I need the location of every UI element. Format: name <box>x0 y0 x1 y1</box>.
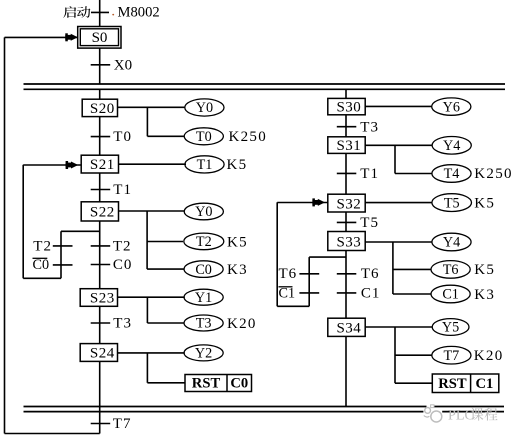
step S33 <box>328 232 365 251</box>
svg-text:C1: C1 <box>442 287 459 303</box>
feedback wire to S32 <box>277 305 309 307</box>
svg-text:T6: T6 <box>443 262 459 278</box>
output coil T4 K250 <box>432 165 471 183</box>
svg-text:T4: T4 <box>444 166 460 182</box>
transition T3 <box>91 322 111 324</box>
svg-text:K5: K5 <box>227 157 248 173</box>
wire S33 outputs <box>365 241 432 243</box>
transition T6 (main) <box>337 273 357 275</box>
output coil Y6 <box>432 98 471 115</box>
action box RST C0 <box>185 375 252 392</box>
svg-text:RST: RST <box>438 376 467 392</box>
wire S32 output <box>365 202 432 204</box>
svg-text:Y0: Y0 <box>195 204 212 220</box>
wire S20 outputs <box>118 106 186 108</box>
svg-text:K250: K250 <box>229 129 268 145</box>
wire S30 to S31 <box>345 115 347 137</box>
wire S32 to S33 <box>345 212 347 232</box>
wire S30 output <box>365 105 432 107</box>
svg-text:PLC: PLC <box>448 408 474 424</box>
output coil Y4 <box>432 137 471 155</box>
transition T7 <box>91 423 111 425</box>
label 启动 <box>63 6 76 18</box>
svg-text:T2: T2 <box>113 238 132 254</box>
svg-text:K5: K5 <box>227 234 248 250</box>
output coil Y0 (S22) <box>184 203 223 220</box>
svg-text:T5: T5 <box>360 215 379 231</box>
svg-text:RST: RST <box>192 376 221 392</box>
step S34 <box>328 318 365 336</box>
output coil C1 K3 <box>431 285 470 303</box>
wire S34 outputs <box>365 326 432 328</box>
svg-text:T1: T1 <box>197 157 213 173</box>
label M8002 <box>112 14 114 16</box>
transition T5 <box>337 221 357 223</box>
output coil T2 K5 <box>184 233 224 250</box>
svg-text:C1: C1 <box>475 376 493 392</box>
output coil T0 K250 <box>184 128 223 145</box>
svg-text:T1: T1 <box>113 182 132 198</box>
transition T3 (right) <box>337 126 357 128</box>
output coil T7 K20 <box>432 346 471 364</box>
svg-text:S0: S0 <box>92 30 108 46</box>
wire S33 to S34 <box>345 251 347 319</box>
svg-text:Y2: Y2 <box>195 346 212 362</box>
wire arrow into S32 <box>277 202 328 204</box>
svg-text:S22: S22 <box>90 204 115 220</box>
svg-text:C1: C1 <box>361 286 381 302</box>
output coil T1 K5 <box>185 156 224 173</box>
transition T0 <box>91 136 111 138</box>
output coil T6 K5 <box>431 261 470 279</box>
transition T1 <box>91 189 111 191</box>
svg-text:T3: T3 <box>360 119 379 135</box>
step S20 <box>82 99 117 116</box>
output coil T5 K5 <box>432 194 472 212</box>
output coil T3 K20 <box>184 315 223 331</box>
svg-text:Y5: Y5 <box>442 320 459 336</box>
svg-text:X0: X0 <box>114 57 132 73</box>
svg-text:M8002: M8002 <box>118 4 160 20</box>
selection branch left (S33) <box>309 256 346 258</box>
transition T2 (main) <box>91 245 111 247</box>
svg-text:T7: T7 <box>113 416 132 432</box>
action box RST C1 <box>432 374 499 393</box>
svg-text:S33: S33 <box>336 235 361 251</box>
svg-text:C0: C0 <box>33 257 50 273</box>
wire S24 outputs <box>118 352 185 354</box>
wire S23 outputs <box>118 296 185 298</box>
svg-text:C1: C1 <box>279 286 296 302</box>
transition X0 <box>91 64 111 66</box>
contact tick M8002 <box>91 11 109 13</box>
transition T2 (branch) <box>53 245 73 247</box>
svg-text:S20: S20 <box>90 101 115 117</box>
wire S34 to bottom bar <box>345 336 347 406</box>
svg-text:T6: T6 <box>361 266 380 282</box>
svg-text:S30: S30 <box>336 99 361 115</box>
output coil Y2 <box>184 345 223 361</box>
wire bar to S20 <box>99 89 101 99</box>
svg-text:T0: T0 <box>113 129 132 145</box>
step S0 (initial step, double box) <box>78 27 121 49</box>
svg-text:Y6: Y6 <box>443 99 460 115</box>
wire S21 to S22 <box>99 173 101 202</box>
svg-text:K5: K5 <box>474 195 495 211</box>
svg-text:T6: T6 <box>279 266 298 282</box>
step S24 <box>80 344 117 362</box>
svg-text:T3: T3 <box>196 316 212 332</box>
output coil C0 K3 <box>184 261 223 278</box>
parallel convergence bar <box>24 406 505 408</box>
svg-text:T2: T2 <box>33 239 52 255</box>
transition C1-bar (branch) <box>299 292 319 294</box>
step S30 <box>328 98 365 114</box>
svg-text:C0: C0 <box>230 376 248 392</box>
wire S0 to X0 <box>99 48 101 84</box>
transition T1 (right) <box>337 172 357 174</box>
feedback wire to S0 <box>5 433 100 435</box>
wire S31 outputs <box>365 144 432 146</box>
svg-text:C0: C0 <box>195 262 212 278</box>
svg-text:T0: T0 <box>196 129 212 145</box>
wire bar to S30 <box>345 89 347 98</box>
output coil Y1 <box>184 289 223 305</box>
step S32 <box>328 194 365 212</box>
svg-text:T5: T5 <box>444 195 460 211</box>
selection branch left (S22) <box>61 230 100 232</box>
wire arrow into S0 <box>5 36 78 38</box>
step S31 <box>328 137 365 154</box>
svg-text:K3: K3 <box>474 287 495 303</box>
output coil Y0 <box>185 99 224 116</box>
svg-text:S21: S21 <box>90 157 115 173</box>
transition T6 (branch) <box>299 273 319 275</box>
transition C0-bar (branch) <box>53 264 73 266</box>
svg-text:C0: C0 <box>113 257 133 273</box>
svg-text:S32: S32 <box>336 196 361 212</box>
svg-text:S24: S24 <box>90 346 115 362</box>
svg-text:K20: K20 <box>474 348 504 364</box>
wire S20 to S21 <box>99 117 101 156</box>
svg-text:T7: T7 <box>444 348 460 364</box>
wire S21 output <box>119 163 187 165</box>
svg-text:K20: K20 <box>227 316 257 332</box>
svg-text:K3: K3 <box>227 262 248 278</box>
svg-text:T1: T1 <box>360 166 379 182</box>
svg-text:Y1: Y1 <box>195 290 212 306</box>
feedback wire to S21 <box>23 277 61 279</box>
svg-text:T3: T3 <box>113 316 132 332</box>
watermark logo <box>427 405 435 407</box>
parallel divergence bar <box>24 83 506 85</box>
svg-text:S31: S31 <box>336 138 361 154</box>
wire S23 to S24 <box>99 306 101 343</box>
transition C1 (main) <box>337 292 357 294</box>
wire S22 outputs <box>119 210 185 212</box>
output coil Y4 (S33) <box>432 233 471 251</box>
svg-text:S34: S34 <box>336 321 361 337</box>
step S23 <box>80 289 117 307</box>
svg-text:Y0: Y0 <box>196 100 213 116</box>
svg-text:Y4: Y4 <box>443 235 460 251</box>
svg-text:Y4: Y4 <box>443 138 460 154</box>
wire S24 to bottom <box>99 361 101 433</box>
wire top spine <box>99 0 101 27</box>
svg-text:K250: K250 <box>474 166 512 182</box>
svg-text:T2: T2 <box>196 234 212 250</box>
wire S31 to S32 <box>345 153 347 194</box>
step S22 <box>81 202 118 221</box>
step S21 <box>81 155 118 173</box>
wire S22 to S23 <box>99 221 101 289</box>
svg-text:S23: S23 <box>90 291 115 307</box>
output coil Y5 <box>432 319 469 336</box>
transition C0 (main) <box>91 264 111 266</box>
svg-text:K5: K5 <box>474 262 495 278</box>
